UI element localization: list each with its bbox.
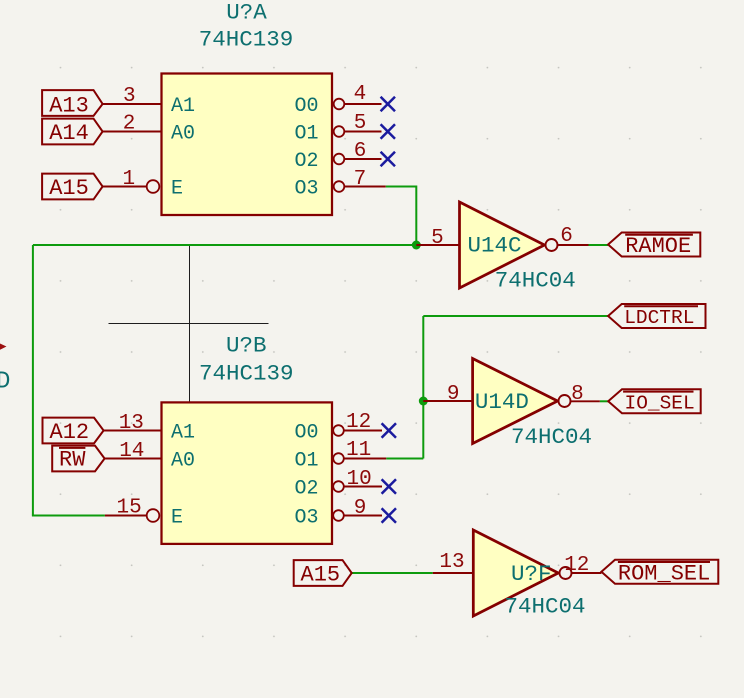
svg-text:5: 5 (431, 227, 444, 250)
inverter U14C body (460, 202, 558, 288)
svg-text:A14: A14 (49, 121, 89, 146)
no-connect X on U?A pin 4 (381, 97, 395, 111)
inverter U14D body (473, 359, 571, 444)
U?F pin 12 (output) (564, 554, 601, 577)
wire to U?B pin 15 (E) (32, 515, 105, 517)
svg-text:A15: A15 (301, 563, 341, 588)
no-connect X on U?A pin 5 (381, 124, 395, 138)
wire vertical left rail x=32.9 (32, 245, 34, 516)
svg-text:O0: O0 (295, 422, 319, 445)
svg-text:O1: O1 (295, 123, 319, 146)
svg-text:A15: A15 (49, 176, 89, 201)
global label RAMOE (active low) (608, 233, 700, 260)
global label RW (active low) (52, 446, 104, 473)
svg-text:RW: RW (59, 448, 86, 473)
svg-text:14: 14 (119, 440, 144, 463)
global label IO_SEL (active low) (608, 389, 701, 414)
svg-text:RAMOE: RAMOE (625, 234, 691, 259)
svg-text:4: 4 (354, 83, 367, 106)
svg-text:O3: O3 (295, 507, 319, 530)
U?B pin 11 (O1, inverted) (295, 439, 387, 473)
svg-text:LDCTRL: LDCTRL (624, 307, 694, 329)
U?A pin 2 (A0) (103, 113, 195, 146)
svg-text:U14D: U14D (475, 389, 529, 415)
U14C pin 5 (input) (416, 227, 459, 250)
svg-text:13: 13 (119, 412, 144, 435)
svg-text:1: 1 (122, 168, 135, 191)
svg-text:E: E (171, 178, 183, 201)
U?B pin 10 (O2, inverted) (295, 468, 383, 501)
junction at U14D input (419, 397, 428, 406)
wire A15 to U?F pin 13 (352, 572, 433, 574)
svg-text:O0: O0 (295, 95, 319, 118)
wire horizontal y=245 from x=32.9 to junction (33, 244, 416, 246)
svg-text:11: 11 (346, 439, 371, 462)
editor crosshair (109, 244, 269, 402)
U?B pin 14 (A0) (105, 440, 195, 473)
global label LDCTRL (active low) (608, 304, 705, 329)
global label A15 (top) (42, 174, 103, 202)
svg-text:10: 10 (346, 468, 371, 491)
U?A pin 5 (O1, inverted) (295, 112, 382, 146)
no-connect X on U?B pin 12 (382, 423, 396, 437)
U14D pin 8 (output) (571, 383, 600, 406)
U?B pin 9 (O3, inverted) (295, 497, 383, 530)
U?A pin 3 (A1) (103, 85, 195, 118)
svg-text:U?B: U?B (226, 333, 267, 359)
svg-text:12: 12 (346, 411, 371, 434)
U?B pin 15 (E, inverted) (105, 497, 183, 530)
svg-text:E: E (171, 507, 183, 530)
U?A pin 1 (E, inverted) (103, 168, 183, 201)
U?A pin 4 (O0, inverted) (295, 83, 382, 118)
clipped label arrow at left edge (0, 344, 7, 350)
global label ROM_SEL (active low) (601, 560, 718, 587)
svg-text:15: 15 (116, 497, 141, 520)
IC U?A body (162, 74, 333, 216)
svg-text:9: 9 (354, 497, 367, 520)
svg-text:74HC139: 74HC139 (199, 27, 294, 53)
wire LDCTRL vertical x=424.3 (422, 316, 424, 459)
svg-text:7: 7 (354, 168, 367, 191)
no-connect X on U?B pin 9 (382, 508, 396, 522)
no-connect X on U?B pin 10 (382, 479, 396, 493)
svg-text:74HC04: 74HC04 (495, 268, 576, 294)
wire net RAMOE-row: pin7 to junction (386, 187, 417, 246)
svg-text:A1: A1 (171, 422, 195, 445)
U?A pin 6 (O2, inverted) (295, 140, 382, 173)
svg-text:U?F: U?F (511, 561, 552, 587)
svg-text:IO_SEL: IO_SEL (625, 392, 695, 414)
global label A14 (42, 119, 103, 146)
svg-text:O3: O3 (295, 178, 319, 201)
IC U?B body (162, 402, 333, 544)
wire LDCTRL horizontal (423, 315, 608, 317)
svg-text:A0: A0 (171, 450, 195, 473)
svg-text:U14C: U14C (468, 233, 522, 259)
svg-text:A1: A1 (171, 95, 195, 118)
svg-text:74HC139: 74HC139 (199, 361, 294, 387)
svg-text:O1: O1 (295, 450, 319, 473)
svg-text:74HC04: 74HC04 (505, 594, 586, 620)
global label A12 (43, 418, 104, 446)
svg-text:O2: O2 (295, 478, 319, 501)
junction at U14C input (412, 241, 421, 250)
U?F pin 13 (input) (433, 551, 474, 574)
svg-text:A13: A13 (49, 94, 89, 119)
no-connect X on U?A pin 6 (381, 152, 395, 166)
U?B pin 13 (A1) (104, 412, 195, 445)
wire from U?B pin 11 (O1) (386, 458, 423, 460)
svg-text:A12: A12 (50, 420, 90, 445)
U?B pin 12 (O0, inverted) (295, 411, 383, 445)
svg-text:5: 5 (354, 112, 367, 135)
global label A13 (42, 90, 103, 119)
U?A pin 7 (O3, inverted) (295, 168, 386, 201)
svg-text:O2: O2 (295, 150, 319, 173)
svg-text:12: 12 (564, 554, 589, 577)
svg-text:3: 3 (123, 85, 136, 108)
svg-text:6: 6 (354, 140, 367, 163)
global label A15 (bottom) (294, 560, 352, 588)
svg-text:13: 13 (439, 551, 464, 574)
wire U14D output to IO_SEL label (600, 400, 608, 402)
svg-text:9: 9 (447, 383, 460, 406)
U14D pin 9 (input) (423, 383, 472, 406)
svg-text:U?A: U?A (226, 0, 267, 26)
inverter U?F body (473, 530, 571, 616)
wire U14C output to RAMOE label (589, 244, 609, 246)
svg-text:8: 8 (571, 383, 584, 406)
svg-text:ROM_SEL: ROM_SEL (618, 561, 710, 586)
svg-text:D: D (0, 369, 10, 396)
U14C pin 6 (output) (558, 225, 589, 248)
svg-text:6: 6 (560, 225, 573, 248)
svg-text:2: 2 (123, 113, 136, 136)
svg-text:A0: A0 (171, 123, 195, 146)
svg-text:74HC04: 74HC04 (511, 424, 592, 450)
